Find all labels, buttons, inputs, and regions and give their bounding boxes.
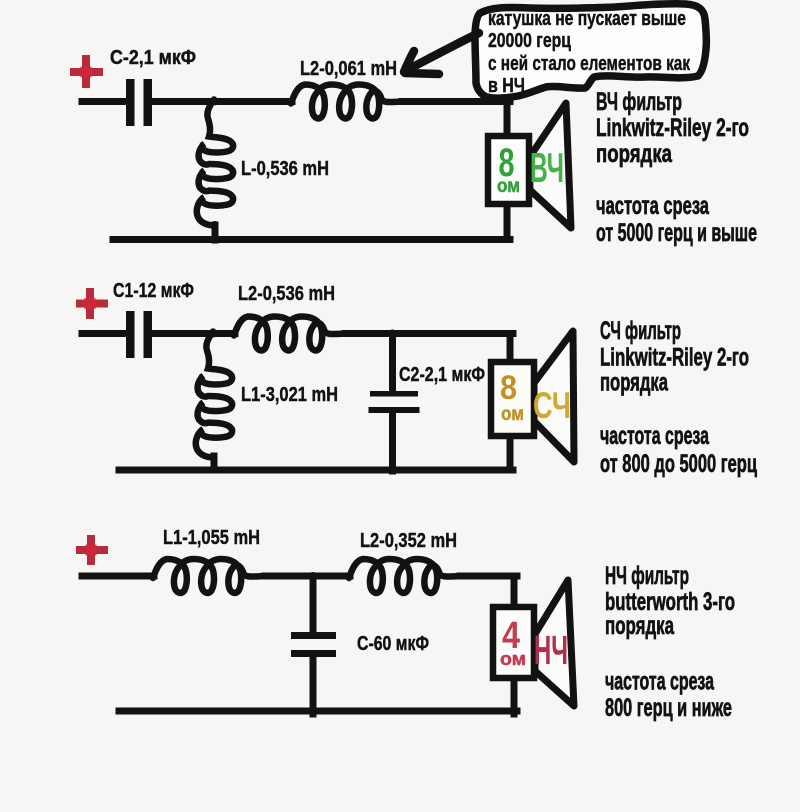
bubble text line 4 <box>488 74 525 97</box>
wire: node D down to capacitor C <box>310 576 317 633</box>
wire: speaker СЧ bottom to return wire <box>507 432 514 470</box>
svg-text:СЧ: СЧ <box>533 385 571 426</box>
wire: shunt inductor stub to bottom wire <box>212 225 219 240</box>
label 8 (amber) <box>500 369 517 407</box>
wire: plus to capacitor C1 <box>82 330 126 337</box>
inductor L1 (shunt coil at node B) <box>196 332 232 458</box>
speaker НЧ driver box (4 ом) <box>493 607 534 678</box>
node C (junction top wire / shunt capacitor C2) <box>389 330 397 338</box>
inductor L (shunt coil at node A) <box>197 100 233 226</box>
value label C1-12 мкФ <box>113 280 194 302</box>
wire: inductor L1 to node D <box>265 573 313 580</box>
bubble text line 1 <box>488 7 686 30</box>
svg-text:8: 8 <box>500 369 517 407</box>
speaker НЧ cone <box>535 580 574 706</box>
wire: vertical drop into speaker ВЧ <box>504 102 511 141</box>
svg-text:C-2,1 мкФ: C-2,1 мкФ <box>110 47 196 69</box>
HF description text block <box>596 88 757 247</box>
label ом (amber) <box>501 404 524 425</box>
wire: speaker НЧ bottom to return wire <box>511 674 518 714</box>
svg-text:НЧ: НЧ <box>534 627 568 673</box>
wire: capacitor C to bottom wire <box>310 657 317 714</box>
value label L1-3,021 mH <box>241 384 338 406</box>
svg-text:с ней стало елементов как: с ней стало елементов как <box>488 52 691 75</box>
value label L2-0,352 mH <box>360 530 457 552</box>
wire: vertical drop into speaker НЧ <box>511 576 518 611</box>
wire: capacitor C1 to node B <box>152 330 213 337</box>
bubble text line 3 <box>488 52 691 75</box>
annotation arrow to L2 <box>404 33 479 74</box>
svg-text:800 герц и ниже: 800 герц и ниже <box>605 694 732 722</box>
capacitor C (series) <box>126 79 152 126</box>
svg-text:L-0,536 mH: L-0,536 mH <box>241 158 329 180</box>
label 4 (red) <box>502 615 520 657</box>
capacitor C1 (series) <box>126 311 152 358</box>
wire: capacitor to node A <box>152 98 214 105</box>
svg-text:СЧ фильтр: СЧ фильтр <box>600 317 681 345</box>
plus terminal (+) top circuit <box>70 55 103 88</box>
wire: speaker bottom to return wire <box>504 200 511 240</box>
svg-text:НЧ фильтр: НЧ фильтр <box>605 562 689 590</box>
node D (junction / shunt capacitor C) <box>309 572 317 580</box>
value label C-60 мкФ <box>357 633 429 655</box>
wire: plus to capacitor C <box>82 98 126 105</box>
label СЧ (amber, on cone) <box>533 385 571 426</box>
bottom return wire (top circuit) <box>113 236 510 243</box>
speaker СЧ driver box (8 ом) <box>491 362 534 436</box>
bubble text line 2 <box>488 29 571 52</box>
bottom return wire (middle circuit) <box>119 467 513 474</box>
value label L1-1,055 mH <box>163 527 260 549</box>
svg-text:ом: ом <box>501 404 524 425</box>
wire: node B to inductor L2 <box>213 330 235 337</box>
value label C2-2,1 мкФ <box>399 364 485 386</box>
svg-text:Linkwitz-Riley 2-го: Linkwitz-Riley 2-го <box>596 114 749 142</box>
wire: node C down to capacitor C2 <box>389 334 396 393</box>
speaker ВЧ driver box (8 ом) <box>488 136 529 204</box>
svg-text:частота среза: частота среза <box>596 192 710 220</box>
wire: inductor L2 to speaker НЧ <box>460 573 517 580</box>
svg-text:C1-12 мкФ: C1-12 мкФ <box>113 280 194 302</box>
svg-text:ВЧ: ВЧ <box>530 144 564 191</box>
wire: shunt inductor L1 stub to bottom wire <box>211 456 218 470</box>
svg-text:L1-3,021 mH: L1-3,021 mH <box>241 384 338 406</box>
svg-text:порядка: порядка <box>600 369 669 397</box>
svg-text:ВЧ фильтр: ВЧ фильтр <box>596 88 682 116</box>
wire: inductor L2 to speaker top <box>402 98 510 105</box>
label ВЧ (green, on cone) <box>530 144 564 191</box>
svg-text:C-60 мкФ: C-60 мкФ <box>357 633 429 655</box>
MF description text block <box>600 317 757 478</box>
capacitor C2 (shunt) <box>369 391 420 413</box>
speaker ВЧ cone <box>529 103 571 228</box>
value label L2-0,061 mH <box>300 58 397 80</box>
value label L-0,536 mH <box>241 158 329 180</box>
wire: capacitor C2 to bottom wire <box>389 413 396 471</box>
svg-text:частота среза: частота среза <box>605 668 715 696</box>
svg-text:ом: ом <box>497 176 520 197</box>
inductor L1 (series coil, bottom) <box>153 559 265 593</box>
inductor L2 (series coil) <box>291 85 403 119</box>
LF description text block <box>605 562 735 722</box>
plus terminal (+) bottom circuit <box>76 535 108 565</box>
svg-text:L1-1,055 mH: L1-1,055 mH <box>163 527 260 549</box>
svg-text:Linkwitz-Riley 2-го: Linkwitz-Riley 2-го <box>600 344 749 372</box>
svg-text:L2-0,536 mH: L2-0,536 mH <box>238 283 335 305</box>
label НЧ (dark red, on cone) <box>534 627 568 673</box>
svg-text:L2-0,352 mH: L2-0,352 mH <box>360 530 457 552</box>
svg-text:20000 герц: 20000 герц <box>488 29 571 52</box>
annotation speech bubble <box>475 4 706 98</box>
bottom return wire (bottom circuit) <box>119 708 517 715</box>
wire: inductor L2 to node C and speaker <box>345 330 513 337</box>
svg-text:в НЧ: в НЧ <box>488 74 525 97</box>
svg-text:от 5000 герц и выше: от 5000 герц и выше <box>596 219 757 247</box>
label ом (red) <box>500 649 526 669</box>
node A (junction top wire / shunt inductor) <box>210 98 218 106</box>
wire: node A to inductor L2 <box>214 98 292 105</box>
value label L2-0,536 mH <box>238 283 335 305</box>
svg-text:от 800 до 5000 герц: от 800 до 5000 герц <box>600 450 757 478</box>
wire: node D to inductor L2 <box>313 573 350 580</box>
value label C-2,1 мкФ <box>110 47 196 69</box>
svg-text:катушка не пускает выше: катушка не пускает выше <box>488 7 686 30</box>
capacitor C (shunt, bottom) <box>291 632 336 657</box>
svg-text:C2-2,1 мкФ: C2-2,1 мкФ <box>399 364 485 386</box>
wire: plus to inductor L1 <box>82 573 154 580</box>
plus terminal (+) middle circuit <box>76 288 108 319</box>
label 8 (green) <box>499 141 515 185</box>
inductor L2 (series coil, bottom) <box>349 559 461 593</box>
wire: vertical drop into speaker СЧ <box>507 334 514 367</box>
label ом (green) <box>497 176 520 197</box>
svg-text:частота среза: частота среза <box>600 422 710 450</box>
speaker СЧ cone <box>534 331 574 462</box>
svg-text:ом: ом <box>500 649 526 669</box>
svg-text:порядка: порядка <box>596 140 673 168</box>
svg-text:порядка: порядка <box>605 612 675 640</box>
inductor L2 (series coil, middle) <box>234 317 346 351</box>
node B (junction top wire / shunt inductor L1) <box>209 330 217 338</box>
svg-text:L2-0,061 mH: L2-0,061 mH <box>300 58 397 80</box>
